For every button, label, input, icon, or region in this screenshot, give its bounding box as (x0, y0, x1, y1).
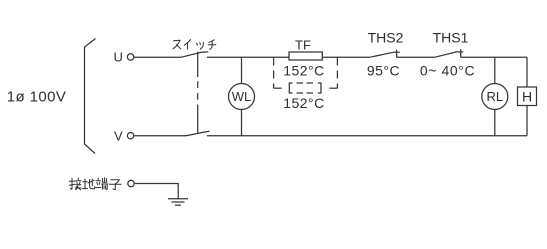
thermostat THS1 contact (460, 49, 462, 57)
switch pole U blade (182, 52, 209, 57)
svg-text:WL: WL (232, 89, 252, 104)
svg-text:H: H (522, 88, 532, 104)
svg-text:0~ 40°C: 0~ 40°C (420, 63, 475, 79)
lamp WL (229, 84, 255, 110)
svg-text:V: V (114, 129, 123, 144)
wire WL branch (241, 57, 243, 136)
wire right edge (526, 57, 528, 136)
switch linkage rod (dashed) (197, 52, 199, 77)
lamp RL (482, 84, 508, 110)
wire V terminal to switch (134, 135, 186, 137)
spare thermal fuse (dashed) (289, 83, 292, 93)
supply brace (85, 39, 96, 154)
svg-text:THS1: THS1 (433, 30, 469, 46)
ground symbol (168, 198, 188, 200)
wire bottom line (207, 135, 527, 137)
terminal V (127, 133, 133, 139)
thermostat THS2 blade (370, 52, 394, 57)
switch label (katakana suicchi) (173, 40, 216, 50)
svg-text:RL: RL (486, 89, 503, 104)
ground terminal label (kanji setchi tanshi) (69, 178, 121, 190)
svg-text:152°C: 152°C (283, 62, 325, 78)
terminal U (127, 54, 133, 60)
svg-text:1ø 100V: 1ø 100V (7, 89, 67, 106)
svg-text:95°C: 95°C (367, 63, 400, 79)
dashed protector box (273, 58, 275, 89)
svg-text:U: U (114, 50, 123, 65)
wire THS2 to THS1 (397, 56, 435, 58)
switch pole V blade (186, 131, 210, 136)
svg-text:152°C: 152°C (283, 95, 325, 111)
ground terminal (128, 180, 134, 186)
svg-text:THS2: THS2 (368, 30, 404, 46)
heater H box (518, 87, 537, 106)
wire top line switch to THS2 (207, 56, 370, 58)
svg-text:TF: TF (295, 38, 311, 53)
thermostat THS1 blade (435, 52, 458, 58)
thermal fuse TF (289, 52, 322, 60)
wire U terminal to switch (134, 56, 182, 58)
thermostat THS2 contact (396, 50, 398, 58)
wire ground terminal to earth (134, 184, 178, 199)
wire THS1 to right corner (461, 56, 527, 58)
wire RL branch (494, 57, 496, 136)
